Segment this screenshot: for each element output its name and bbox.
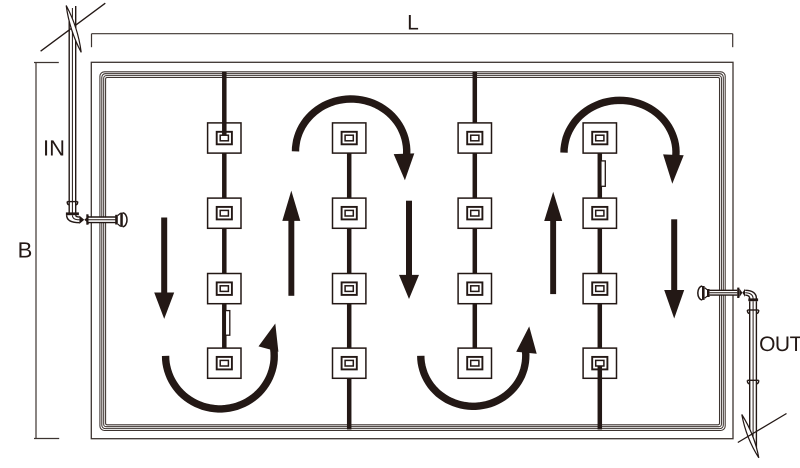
inlet valve bowtie	[79, 216, 89, 224]
baffle line column 1 (from top wall)	[222, 72, 227, 349]
outlet nozzle cap and flange	[698, 286, 710, 300]
nozzle box column 4 row 3	[583, 274, 616, 304]
turn arc over baffle 4 with arrowhead	[564, 100, 684, 184]
flow arrow down 3	[664, 219, 684, 318]
nozzle box column 4 row 2	[583, 198, 616, 228]
inlet pipe vertical run	[69, 6, 76, 213]
nozzle box column 2 row 2	[333, 198, 366, 228]
outlet elbow flange	[748, 298, 758, 301]
outlet valve bowtie	[740, 289, 745, 297]
outlet horizontal pipe through wall	[710, 290, 738, 295]
nozzle box column 3 row 3	[458, 274, 491, 304]
tank outer shell	[91, 62, 733, 438]
outlet pipe coupling 2	[747, 380, 758, 384]
nozzle box column 4 row 4	[583, 348, 616, 378]
sleeve joint on baffle 1	[225, 311, 229, 336]
nozzle box column 1 row 1	[208, 123, 241, 153]
flow arrow up 2	[544, 192, 562, 294]
svg-text:B: B	[18, 237, 33, 262]
inlet flange bar	[86, 214, 88, 224]
inlet pipe coupling	[67, 202, 78, 205]
tank inner wall lines	[100, 72, 725, 431]
dimension line B (left)	[34, 63, 59, 439]
baffle line column 3 (from top wall)	[473, 72, 478, 349]
nozzle box column 1 row 4	[208, 348, 241, 378]
nozzle box column 1 row 2	[208, 198, 241, 228]
inlet nozzle flange and cap	[115, 213, 127, 227]
pipe break mark at outlet bottom	[738, 414, 787, 458]
nozzle box column 3 row 2	[458, 198, 491, 228]
pipe break mark at inlet top	[41, 3, 106, 52]
outlet pipe coupling 1	[747, 310, 758, 314]
flow arrow down 2	[399, 201, 419, 299]
outlet pipe vertical run	[750, 301, 757, 452]
baffle line column 2 (from bottom wall)	[347, 152, 352, 429]
baffle line column 4 (from bottom wall)	[598, 152, 603, 429]
dimension line L (top)	[92, 34, 733, 48]
svg-text:IN: IN	[43, 136, 65, 161]
svg-text:OUT: OUT	[759, 333, 800, 356]
flow arrow down 1	[154, 218, 174, 319]
inlet elbow	[67, 215, 80, 223]
outlet flange bar	[737, 288, 739, 298]
outlet elbow	[745, 290, 756, 298]
svg-text:L: L	[407, 12, 419, 35]
sleeve joint on baffle 4	[601, 161, 605, 186]
turn arc under baffle 3 with arrowhead	[421, 326, 537, 406]
nozzle box column 1 row 3	[208, 274, 241, 304]
inlet elbow flange	[66, 212, 79, 215]
flow arrow up 1	[282, 191, 300, 296]
nozzle box column 3 row 1	[458, 123, 491, 153]
inlet horizontal pipe through wall	[89, 217, 117, 223]
turn arc over baffle 2 with arrowhead	[296, 99, 415, 180]
nozzle box column 2 row 4	[333, 348, 366, 378]
nozzle box column 4 row 1	[583, 123, 616, 153]
nozzle box column 3 row 4	[458, 348, 491, 378]
nozzle box column 2 row 1	[333, 123, 366, 153]
nozzle box column 2 row 3	[333, 274, 366, 304]
turn arc under baffle 1 with arrowhead	[166, 324, 279, 409]
